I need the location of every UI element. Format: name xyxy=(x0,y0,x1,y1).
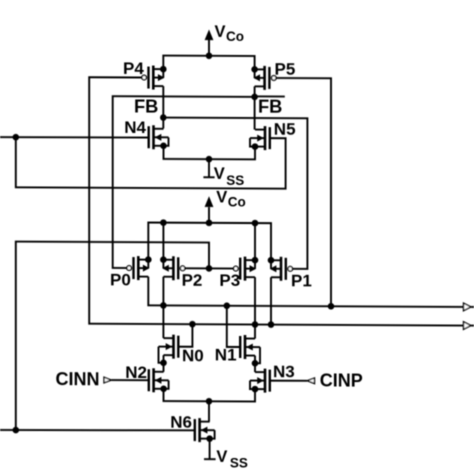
svg-text:N2: N2 xyxy=(125,363,147,382)
svg-text:P4: P4 xyxy=(123,59,144,78)
svg-text:N6: N6 xyxy=(170,413,192,432)
svg-text:V: V xyxy=(216,189,227,207)
svg-text:N3: N3 xyxy=(273,362,295,381)
svg-text:V: V xyxy=(214,165,225,183)
svg-text:P1: P1 xyxy=(291,271,312,290)
svg-text:SS: SS xyxy=(226,173,244,188)
svg-text:N1: N1 xyxy=(215,345,237,364)
svg-text:CINN: CINN xyxy=(56,369,100,389)
svg-text:P3: P3 xyxy=(219,271,240,290)
svg-text:Co: Co xyxy=(228,194,246,209)
svg-text:N5: N5 xyxy=(274,120,296,139)
svg-text:Co: Co xyxy=(226,29,244,44)
svg-text:CINP: CINP xyxy=(320,371,363,391)
svg-text:N0: N0 xyxy=(182,346,204,365)
svg-text:V: V xyxy=(216,448,227,466)
svg-text:P2: P2 xyxy=(182,271,203,290)
svg-text:FB: FB xyxy=(258,95,282,116)
svg-text:SS: SS xyxy=(230,456,248,471)
svg-text:V: V xyxy=(215,23,226,41)
svg-text:N4: N4 xyxy=(124,118,146,137)
svg-text:FB: FB xyxy=(134,95,158,116)
svg-text:P0: P0 xyxy=(110,270,131,289)
svg-text:P5: P5 xyxy=(275,60,296,79)
